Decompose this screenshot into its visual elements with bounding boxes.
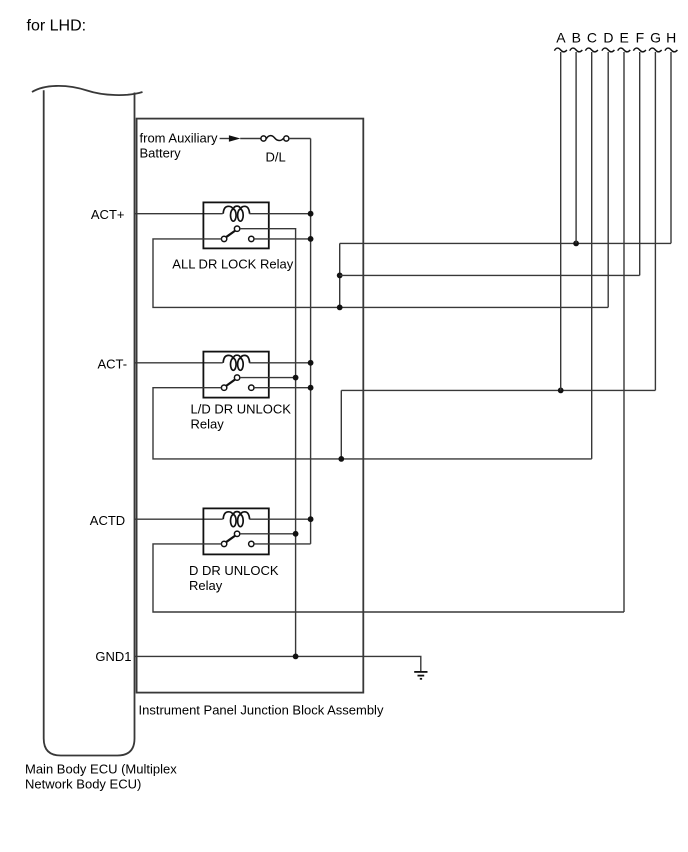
Instrument Panel Junction Block Assembly box [137, 119, 364, 693]
svg-text:for LHD:: for LHD: [27, 18, 87, 35]
wire net branch vertical [339, 243, 341, 307]
wire connector H [670, 52, 672, 243]
svg-text:Main Body ECU (Multiplex: Main Body ECU (Multiplex [25, 762, 177, 777]
relay R2 right contact [249, 385, 254, 390]
relay R2 coil [223, 355, 249, 370]
switch D/L right contact [284, 136, 289, 141]
svg-text:A: A [556, 30, 566, 46]
wire net branch vertical 2 [340, 390, 342, 459]
svg-text:Network Body ECU): Network Body ECU) [25, 777, 141, 792]
wire connector A [560, 52, 562, 390]
relay R1 coil [223, 206, 249, 221]
svg-text:Relay: Relay [189, 578, 223, 593]
wire connector F [639, 52, 641, 275]
relay R1 box [203, 202, 268, 248]
relay R1 right contact [249, 236, 254, 241]
wire arrow to switch [240, 138, 261, 140]
wire R2 pivot to chain [240, 377, 296, 379]
svg-text:E: E [620, 30, 629, 46]
svg-text:ACT-: ACT- [98, 356, 128, 371]
wire R1 right contact [254, 238, 311, 240]
relay R2 box [203, 352, 268, 398]
relay R1 pivot contact [234, 226, 239, 231]
svg-text:L/D DR UNLOCK: L/D DR UNLOCK [191, 401, 292, 416]
wire R2 left contact loop [153, 388, 592, 459]
relay R3 right contact [249, 541, 254, 546]
wire R3 coil out [249, 518, 310, 520]
arrow battery feed [229, 135, 241, 142]
wire R1 left contact loop [153, 239, 608, 308]
svg-text:ACT+: ACT+ [91, 207, 125, 222]
relay R2 left contact [221, 385, 226, 390]
wire net F [340, 274, 640, 276]
junction dot R2 pivot [293, 375, 299, 381]
wire connector E [623, 52, 625, 612]
wire R2 right contact [254, 387, 311, 389]
wire D/L vertical feed [310, 139, 312, 544]
relay R3 left contact [221, 541, 226, 546]
svg-text:GND1: GND1 [95, 649, 131, 664]
wire connector G [654, 52, 656, 390]
wire R1 coil out [249, 213, 310, 215]
wire R3 right contact to DL end [254, 543, 311, 545]
wire ACTD [135, 518, 223, 520]
relay R1 left contact [221, 236, 226, 241]
relay R3 pivot contact [234, 531, 239, 536]
svg-text:C: C [587, 30, 597, 46]
connector break squiggles [554, 48, 677, 52]
wire R1 pivot to chain [240, 228, 296, 230]
svg-text:D/L: D/L [266, 150, 286, 165]
wire switch to D/L vertical [289, 138, 311, 140]
wire connector D [607, 52, 609, 307]
wire ACT- [135, 362, 223, 364]
ground symbol [414, 672, 427, 679]
wire R3 left contact loop [153, 544, 624, 612]
Main Body ECU (Multiplex Network Body ECU) outline [44, 90, 135, 755]
ECU torn-top wave [32, 86, 143, 95]
junction dot branch C [338, 456, 344, 462]
svg-text:ALL DR LOCK Relay: ALL DR LOCK Relay [172, 256, 293, 271]
junction dot R3 pivot [293, 531, 299, 537]
relay R2 pivot contact [234, 375, 239, 380]
relay R2 switch blade [226, 379, 235, 386]
switch D/L blade (tilde) [266, 136, 283, 141]
wire R2 coil out [249, 362, 310, 364]
relay R3 coil [223, 512, 249, 527]
connector labels A-H [556, 30, 676, 46]
wire connector B [575, 52, 577, 243]
wire ACT+ [135, 213, 223, 215]
junction dot branch F [337, 273, 343, 279]
wire net B-H upper [340, 242, 671, 244]
relay R3 box [203, 508, 268, 554]
svg-text:Battery: Battery [140, 146, 182, 161]
junction dot B [573, 241, 579, 247]
junction dot R2 right contact / DL [308, 385, 314, 391]
svg-text:H: H [666, 30, 676, 46]
wire from Auxiliary Battery feed [220, 138, 229, 140]
svg-text:D: D [603, 30, 613, 46]
svg-text:F: F [636, 30, 645, 46]
wire net A-G [341, 389, 655, 391]
junction dot pivot chain GND [293, 654, 299, 660]
wire R3 pivot to chain [240, 533, 296, 535]
junction dot branch D [337, 305, 343, 311]
svg-text:G: G [650, 30, 661, 46]
svg-text:B: B [572, 30, 581, 46]
wire GND1 [135, 656, 421, 671]
svg-text:from Auxiliary: from Auxiliary [140, 130, 219, 145]
junction dot A [558, 388, 564, 394]
svg-text:D DR UNLOCK: D DR UNLOCK [189, 563, 279, 578]
junction dot R1 coil / DL [308, 211, 314, 217]
junction dot R2 coil / DL [308, 360, 314, 366]
svg-text:ACTD: ACTD [90, 513, 125, 528]
switch D/L left contact [261, 136, 266, 141]
junction dot R3 coil / DL [308, 516, 314, 522]
svg-text:Relay: Relay [191, 416, 225, 431]
svg-text:Instrument Panel Junction Bloc: Instrument Panel Junction Block Assembly [139, 703, 384, 718]
junction dot R1 right contact / DL [308, 236, 314, 242]
relay R1 switch blade [226, 231, 235, 238]
wire connector C [591, 52, 593, 459]
relay R3 switch blade [226, 536, 235, 543]
wire pivot chain vertical [295, 229, 297, 657]
